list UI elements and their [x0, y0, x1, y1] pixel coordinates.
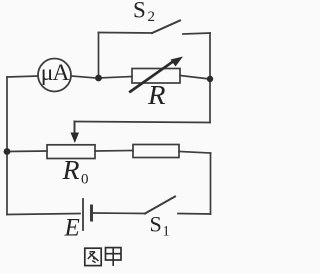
wire: meter right lead — [71, 76, 96, 78]
junction node B dot — [207, 76, 213, 82]
resistor R0 body — [47, 145, 95, 159]
wire: top rail to S2 pivot — [99, 32, 153, 35]
switch S1 blade — [145, 197, 175, 214]
wire: left rail to R0 — [7, 150, 47, 153]
wire: left vertical rail — [6, 77, 8, 215]
svg-text:S: S — [133, 0, 146, 23]
svg-text:1: 1 — [163, 224, 170, 240]
caption: character 甲 — [106, 248, 122, 266]
ammeter uA circle — [38, 59, 71, 92]
svg-text:μA: μA — [41, 60, 70, 86]
battery E short plate — [90, 206, 93, 220]
resistor R body — [132, 69, 180, 84]
svg-text:2: 2 — [148, 9, 156, 25]
wire: node A to resistor R — [99, 77, 133, 79]
wire: bottom rail right (corner to S1 contact) — [178, 213, 211, 216]
wire: wiper drop — [74, 122, 76, 135]
switch S2 blade — [152, 21, 180, 34]
junction node C dot (left rail / R0 branch) — [4, 148, 11, 155]
wire: wiper horizontal rail — [75, 122, 210, 123]
wire: right vertical mid (node B down to wiper rail) — [209, 79, 211, 123]
wire: right vertical lower — [210, 153, 212, 214]
junction node A dot — [95, 75, 102, 82]
svg-text:R: R — [61, 155, 80, 185]
wire: R0 to unlabeled resistor — [95, 150, 133, 153]
svg-text:0: 0 — [81, 172, 89, 188]
wire: right vertical upper (corner to node B) — [209, 33, 211, 79]
svg-text:E: E — [64, 215, 80, 242]
wire: S2 contact to top-right corner — [183, 33, 210, 34]
wire: resistor R to node B — [180, 76, 210, 80]
wiper arrowhead onto R0 — [71, 133, 80, 144]
wire: bottom rail left (corner to battery) — [7, 214, 80, 215]
wire: node A riser to top rail — [98, 33, 100, 79]
unlabeled resistor body — [133, 145, 179, 158]
battery E long plate — [82, 199, 84, 230]
caption: character 图 — [85, 248, 101, 265]
svg-text:S: S — [150, 212, 162, 237]
rheostat R arrow — [128, 57, 183, 94]
wire: meter left lead — [7, 76, 38, 77]
svg-text:R: R — [147, 80, 166, 110]
wire: battery to S1 pivot — [93, 212, 145, 215]
wire: unlabeled resistor to lower-right corner — [179, 152, 211, 154]
